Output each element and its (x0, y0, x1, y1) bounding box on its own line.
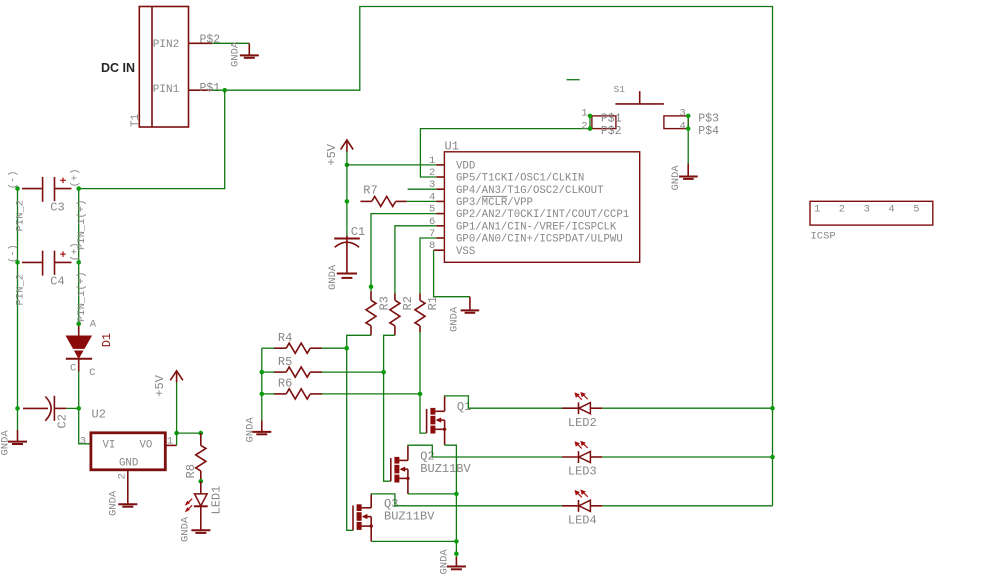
LED LED3 (562, 441, 602, 479)
svg-text:C: C (70, 362, 76, 374)
svg-text:BUZ11BV: BUZ11BV (420, 462, 471, 476)
LED LED2 (562, 392, 602, 430)
svg-text:VO: VO (140, 440, 153, 452)
svg-text:DC IN: DC IN (101, 61, 135, 75)
svg-text:C4: C4 (50, 274, 64, 288)
junction rail R6 (260, 392, 265, 397)
svg-text:PIN_2: PIN_2 (15, 200, 27, 232)
svg-text:U1: U1 (445, 140, 459, 154)
capacitor C4 (7, 242, 81, 288)
svg-text:P$2: P$2 (200, 33, 221, 46)
switch S1 (581, 84, 719, 138)
ground GNDA (LED1) (180, 516, 211, 542)
svg-text:GP0/AN0/CIN+/ICSPDAT/ULPWU: GP0/AN0/CIN+/ICSPDAT/ULPWU (456, 234, 623, 246)
wire Q1 source to ground bus (445, 445, 457, 557)
capacitor C3 (7, 168, 81, 214)
svg-text:C2: C2 (56, 414, 70, 428)
svg-text:P$1: P$1 (601, 112, 622, 125)
svg-text:8: 8 (429, 240, 435, 252)
svg-text:+5V: +5V (153, 374, 167, 396)
voltage regulator U2 (80, 408, 173, 480)
svg-text:R7: R7 (363, 184, 377, 198)
pin 2 GP5 (429, 167, 584, 185)
svg-text:GP2/AN2/T0CKI/INT/COUT/CCP1: GP2/AN2/T0CKI/INT/COUT/CCP1 (456, 209, 629, 221)
wire R2 bottom jog to Q2 gate line (384, 335, 395, 481)
transistor Q1 (427, 397, 472, 446)
svg-text:VSS: VSS (456, 246, 475, 258)
wire Q2 drain to LED3 (408, 445, 562, 457)
svg-text:(+): (+) (70, 242, 82, 261)
wire LED2 to right bus (602, 407, 772, 409)
junction VDD (345, 163, 350, 168)
junction R3 top (369, 284, 374, 289)
junction C4 right (76, 260, 81, 265)
wire stub (near S1) (567, 79, 580, 81)
wire R5 right to Q2 gate line (322, 371, 384, 373)
supply +5V (near U2) (153, 371, 183, 433)
pin 1 stub of U2 (165, 444, 176, 446)
ground GNDA (left rail) (0, 430, 27, 456)
svg-text:R5: R5 (278, 355, 292, 369)
svg-text:P$3: P$3 (698, 112, 719, 125)
svg-text:P$4: P$4 (698, 125, 719, 138)
svg-text:3: 3 (679, 107, 685, 119)
svg-text:GP1/AN1/CIN-/VREF/ICSPCLK: GP1/AN1/CIN-/VREF/ICSPCLK (456, 221, 617, 233)
svg-text:T1: T1 (130, 113, 142, 127)
svg-text:GND: GND (119, 457, 138, 469)
svg-text:GNDA: GNDA (180, 516, 192, 542)
connector ICSP (810, 201, 933, 242)
svg-text:5: 5 (913, 204, 919, 216)
resistor R8 (184, 433, 206, 481)
junction R6 / Q1 gate (418, 392, 423, 397)
wire pin 8 VSS to ground (434, 250, 470, 297)
junction R8 top (199, 431, 204, 436)
junction rail R5 (260, 370, 265, 375)
wire Q3 drain to LED4 (371, 494, 562, 506)
wire pulldown rail (R4-R6 left) (261, 348, 263, 420)
junction R5 / Q2 gate (381, 370, 386, 375)
wire left rail (PIN_2 net) (17, 189, 19, 430)
wire R1 bottom to Q1 gate line (420, 332, 427, 433)
pin 6 GP1 (429, 216, 617, 234)
supply +5V (near C1) (325, 140, 353, 166)
transistor Q2 (391, 446, 472, 494)
wire pin 6 to R2 (395, 226, 436, 294)
pin 2 stub of U2 to ground (127, 470, 129, 505)
junction R4 / Q3 gate (344, 346, 349, 351)
junction S1 pin 3 (686, 114, 691, 119)
wire LED4 to right bus (602, 505, 772, 507)
svg-text:1: 1 (814, 204, 820, 216)
wire R6 right to Q1 gate line (322, 393, 421, 395)
ground GNDA (bus bottom) (439, 549, 466, 575)
transistor Q3 (353, 495, 435, 542)
wire S1 pins 3-4 short and down to ground (687, 116, 689, 164)
resistor R4 (274, 331, 323, 353)
svg-text:GNDA: GNDA (327, 264, 339, 290)
wire pin 7 to R1 (420, 238, 436, 294)
junction C3 right (76, 186, 81, 191)
svg-text:U2: U2 (92, 408, 106, 422)
junction Q2 source / bus (454, 492, 459, 497)
svg-text:GNDA: GNDA (108, 490, 120, 516)
wire pin 2 to switch P$2 (420, 129, 590, 177)
junction D1 anode (76, 322, 81, 327)
pin 4 GP3 (429, 191, 533, 209)
capacitor C2 (23, 396, 70, 429)
svg-text:GNDA: GNDA (0, 430, 12, 456)
wire Q3 source to ground bus (371, 540, 456, 542)
LED LED1 (185, 481, 224, 530)
resistor R6 (274, 377, 323, 399)
wire P$1 down to C3 row (79, 90, 225, 188)
junction LED2 / bus (770, 406, 775, 411)
svg-text:R1: R1 (426, 296, 440, 310)
svg-text:GNDA: GNDA (439, 549, 451, 575)
svg-text:GNDA: GNDA (670, 165, 682, 191)
svg-text:R8: R8 (184, 464, 198, 478)
svg-text:C: C (89, 367, 95, 379)
svg-text:2: 2 (581, 120, 587, 132)
junction LED3 / bus (770, 455, 775, 460)
svg-text:LED1: LED1 (209, 486, 223, 515)
pin P$2 of T1 (189, 33, 221, 46)
pin 5 GP2 (429, 204, 629, 222)
ground GNDA (S1) (670, 164, 698, 191)
resistor R5 (274, 355, 323, 377)
svg-text:PIN2: PIN2 (153, 39, 179, 51)
wire D1 cathode to C2 row and U2 (79, 372, 91, 444)
svg-text:GP3/MCLR/VPP: GP3/MCLR/VPP (456, 197, 533, 209)
pin 7 GP0 (429, 228, 623, 246)
svg-text:4: 4 (888, 204, 894, 216)
junction R7 left (345, 199, 350, 204)
wire R4 right to Q3 gate line (322, 347, 347, 349)
diode D1 (66, 318, 115, 379)
capacitor C1 (334, 225, 365, 274)
ground GNDA (R4-R6 rail) (245, 417, 272, 443)
svg-text:1: 1 (581, 107, 587, 119)
wire stub pin 3 (408, 188, 437, 190)
junction C4 left (15, 260, 20, 265)
pin 1 VDD (429, 155, 475, 173)
svg-text:D1: D1 (100, 333, 114, 347)
ground GNDA (U2 pin2) (108, 490, 138, 516)
svg-text:R3: R3 (377, 296, 391, 310)
ground GNDA (under P$2) (230, 41, 259, 67)
ground GNDA (C1) (327, 264, 357, 290)
resistor R1 (415, 294, 440, 333)
ground GNDA (VSS) (449, 297, 480, 332)
pin 8 VSS (429, 240, 475, 258)
junction C2 right (76, 406, 81, 411)
pin 3 GP4 (429, 179, 604, 197)
svg-text:GNDA: GNDA (230, 41, 242, 67)
svg-text:P$1: P$1 (200, 82, 221, 95)
junction S1 pin 1 (588, 114, 593, 119)
junction C2 left (15, 406, 20, 411)
svg-text:ICSP: ICSP (811, 231, 836, 243)
resistor R2 (390, 294, 415, 336)
svg-text:GP4/AN3/T1G/OSC2/CLKOUT: GP4/AN3/T1G/OSC2/CLKOUT (456, 185, 604, 197)
junction C3 left (15, 186, 20, 191)
svg-text:C1: C1 (351, 225, 365, 239)
wire R3 bottom jog to Q3 gate line (347, 335, 371, 530)
resistor R3 (366, 292, 391, 336)
wire right rail (PIN_1 net) (78, 189, 80, 324)
wire P$2 to ground (212, 42, 249, 44)
wire LED3 to right bus (602, 456, 772, 458)
svg-text:4: 4 (429, 191, 435, 203)
svg-text:C3: C3 (50, 201, 64, 215)
svg-text:R6: R6 (278, 377, 292, 391)
wire Q2 source to ground bus (408, 493, 457, 495)
svg-text:LED2: LED2 (568, 416, 597, 430)
svg-text:2: 2 (117, 473, 129, 479)
svg-text:GNDA: GNDA (449, 306, 461, 332)
svg-text:+5V: +5V (325, 143, 339, 165)
pin P$1 of T1 (189, 82, 221, 95)
junction S1 pin 4 (686, 126, 691, 131)
svg-text:3: 3 (80, 435, 86, 447)
svg-text:GP5/T1CKI/OSC1/CLKIN: GP5/T1CKI/OSC1/CLKIN (456, 173, 584, 185)
svg-text:P$2: P$2 (601, 125, 622, 138)
svg-text:VI: VI (103, 440, 116, 452)
svg-text:Q1: Q1 (457, 400, 471, 414)
svg-text:R2: R2 (401, 296, 415, 310)
junction S1 pin 2 (588, 126, 593, 131)
junction U2 VO (174, 431, 179, 436)
svg-text:LED4: LED4 (568, 513, 597, 527)
LED LED4 (562, 490, 602, 528)
svg-text:VDD: VDD (456, 161, 475, 173)
wire C2 right lead (66, 407, 79, 409)
svg-text:BUZ11BV: BUZ11BV (384, 510, 435, 524)
wire pin 5 to R3 (371, 214, 436, 292)
wire U2 VO to +5V and R8 (177, 433, 201, 445)
wire P$1 to top bus (212, 7, 772, 506)
svg-text:LED3: LED3 (568, 465, 597, 479)
junction Q3 source / bus (454, 539, 459, 544)
svg-text:PIN_2: PIN_2 (15, 274, 27, 306)
IC U1 (444, 140, 639, 263)
wire Q1 drain to LED2 (445, 396, 562, 408)
wire +5V to VDD pin 1 (347, 164, 436, 166)
svg-text:3: 3 (864, 204, 870, 216)
svg-text:PIN1: PIN1 (153, 84, 180, 96)
svg-text:A: A (90, 318, 97, 330)
svg-text:S1: S1 (614, 84, 626, 95)
svg-text:R4: R4 (278, 331, 292, 345)
svg-text:PIN_1(+): PIN_1(+) (76, 272, 88, 322)
junction bus lower (454, 551, 459, 556)
wire R7 to pin 4 (407, 200, 437, 202)
junction P$1 (222, 88, 227, 93)
svg-text:(+): (+) (70, 168, 82, 187)
svg-text:1: 1 (429, 155, 435, 167)
svg-text:GNDA: GNDA (245, 417, 257, 443)
wire +5V down to R7 and C1 (346, 165, 348, 238)
resistor R7 (360, 184, 406, 207)
wire S1 pins 1-2 short (589, 116, 591, 129)
svg-text:2: 2 (839, 204, 845, 216)
svg-text:4: 4 (679, 120, 685, 132)
junction R8 / LED1 (199, 479, 204, 484)
connector T1 (DC IN) (101, 7, 189, 128)
